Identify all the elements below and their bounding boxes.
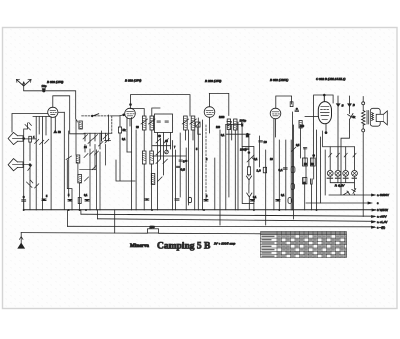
- switch S1a: [25, 123, 31, 131]
- frame aerial connector lower: [8, 159, 30, 171]
- arrow on left output vertical: [291, 147, 295, 151]
- svg-text:Camping 5 B: Camping 5 B: [157, 242, 211, 252]
- svg-text:P. 6,5V: P. 6,5V: [335, 184, 345, 188]
- switch S3: [341, 114, 353, 196]
- heater bus lower: [330, 176, 354, 189]
- volume pot body: [247, 167, 250, 175]
- svg-text:C 362 B (UBL1/UEL1): C 362 B (UBL1/UEL1): [316, 77, 346, 81]
- wires T1: [130, 108, 160, 210]
- AF section verticals: [260, 119, 294, 225]
- wire loop V3 anode: [209, 93, 229, 115]
- wire lamp column: [324, 150, 326, 195]
- node A antenna junction: [43, 90, 45, 92]
- IF transformer T2 primary: [184, 116, 188, 130]
- trimmer arrows left band1: [35, 139, 49, 144]
- svg-text:B 383 (UF3): B 383 (UF3): [47, 80, 63, 84]
- heater switch: [352, 189, 356, 196]
- node V2 anode dot: [130, 104, 132, 106]
- wire antenna to oscillator: [24, 91, 77, 122]
- mid verticals: [158, 118, 199, 210]
- wire loop V2 anode: [131, 95, 191, 116]
- ground: [18, 233, 24, 249]
- trimmer arrows left band2: [35, 184, 39, 188]
- svg-text:0,1: 0,1: [279, 168, 284, 172]
- terminal row 5: [98, 219, 388, 224]
- tube V3: [204, 107, 215, 133]
- IF transformer T1 primary: [142, 116, 146, 130]
- jack upper: [246, 176, 251, 184]
- svg-text:a +1,4V: a +1,4V: [377, 220, 387, 224]
- wire trimmer connectors: [127, 146, 186, 156]
- node flag1: [23, 138, 25, 140]
- terminal row 3 arrow: [372, 208, 388, 212]
- output section verticals: [293, 112, 321, 210]
- terminal row 4: [81, 214, 387, 219]
- switch S1c: [28, 165, 32, 171]
- svg-text:a 40/90V: a 40/90V: [377, 193, 389, 197]
- heater feed wires: [330, 147, 354, 171]
- tube V2: [125, 108, 136, 126]
- svg-text:1,0: 1,0: [257, 169, 262, 173]
- jack lower: [247, 193, 252, 210]
- svg-text:5k: 5k: [123, 128, 127, 132]
- wire grid feed V1: [53, 96, 84, 134]
- svg-text:250: 250: [300, 125, 305, 128]
- svg-text:B 382 (UBF1): B 382 (UBF1): [270, 78, 288, 82]
- svg-text:4k: 4k: [352, 115, 356, 119]
- table header row fill: [261, 232, 347, 235]
- oscillator internal verticals: [85, 133, 106, 149]
- output transformer primary coil: [362, 97, 369, 217]
- oscillator coil L5: [151, 174, 162, 185]
- heater lamp 4: [352, 170, 358, 176]
- bandfilter box: [155, 114, 173, 133]
- trimmer cluster mid: [156, 139, 168, 164]
- heater lamp 3: [343, 170, 349, 176]
- wires caps: [305, 184, 312, 210]
- svg-text:100p: 100p: [240, 148, 247, 152]
- junction dots bus A: [23, 209, 318, 211]
- coupling caps AF: [279, 166, 295, 172]
- terminal row 2: [306, 201, 379, 205]
- electrolytic caps lower: [303, 178, 313, 184]
- data table: [261, 232, 347, 258]
- svg-text:2V + 100/5 amp: 2V + 100/5 amp: [213, 242, 236, 246]
- node B: [348, 96, 355, 114]
- T1 tuning arrows: [141, 119, 155, 124]
- bus A ground rail: [24, 209, 376, 211]
- value labels scattered: [33, 116, 314, 199]
- T2 tuning arrows: [182, 119, 196, 124]
- electrolytic caps 50+50: [303, 158, 316, 166]
- capacitor 1,0 af: [257, 167, 267, 173]
- wire loop V5 grid: [314, 95, 334, 158]
- bus D ground return: [21, 233, 262, 234]
- svg-text:100: 100: [216, 126, 221, 129]
- heater lamp 2: [335, 170, 341, 176]
- resistor on V4 loop: [290, 102, 293, 107]
- svg-text:s −(B): s −(B): [377, 225, 385, 229]
- svg-text:10: 10: [264, 140, 268, 144]
- heater feed bus: [323, 131, 355, 147]
- capacitor 100pF anode: [240, 119, 247, 127]
- osc coil lower2: [78, 166, 96, 183]
- frame aerial connector upper: [8, 132, 24, 144]
- wires below oscillator: [76, 120, 106, 210]
- table cell fills: [278, 235, 347, 257]
- svg-text:1000: 1000: [219, 116, 225, 119]
- left frame wires: [12, 114, 48, 210]
- capacitor 10 top: [259, 140, 267, 144]
- terminal row 6: [67, 225, 385, 229]
- heater lamp 1: [327, 170, 333, 176]
- resistor 150: [148, 225, 159, 233]
- fuse symbols: [329, 153, 357, 157]
- output tube V5: [305, 95, 332, 134]
- component row above bus mid: [145, 197, 292, 203]
- switch at left of coil: [66, 156, 72, 160]
- capacitor 5: [179, 160, 187, 164]
- component row above bus left: [42, 198, 89, 204]
- bandfilter caps inside: [157, 121, 168, 122]
- capacitor at V4 anode: [295, 108, 299, 112]
- svg-text:3 W/KW: 3 W/KW: [377, 208, 388, 212]
- tube V1: [48, 107, 65, 209]
- trimmer circles: [165, 150, 169, 154]
- arrow mid: [105, 139, 109, 143]
- node flag2: [29, 164, 31, 166]
- svg-text:S: S: [342, 104, 344, 108]
- AVC dashed line: [205, 125, 207, 199]
- svg-text:B 383 (UF4): B 383 (UF4): [125, 79, 141, 83]
- padder trimmers: [83, 135, 108, 147]
- capacitor 100p agc: [240, 148, 249, 152]
- IF transformer T1 secondary: [150, 116, 154, 130]
- bus risers: [67, 210, 114, 233]
- wire loop V4 anode: [276, 96, 292, 108]
- terminal arrow 1: [372, 194, 376, 196]
- mid section resistor under V2: [118, 127, 126, 133]
- resistor R1: [29, 136, 32, 142]
- detector verticals: [203, 120, 254, 225]
- T1 coil lower pair: [142, 151, 153, 164]
- switch S1b: [27, 180, 33, 188]
- wires T2: [185, 130, 193, 140]
- mid verticals under V2: [105, 115, 137, 210]
- resistor AF: [299, 121, 302, 129]
- svg-text:B 283 (UF9): B 283 (UF9): [205, 79, 221, 83]
- caps 0,1 pair output: [303, 148, 306, 149]
- svg-text:150: 150: [150, 225, 155, 229]
- electrolytic small left: [291, 184, 294, 190]
- node S: [337, 96, 344, 170]
- main switch on line: [329, 191, 375, 195]
- tube V4: [270, 108, 281, 137]
- volume pot arrow: [247, 155, 254, 162]
- svg-text:10p: 10p: [42, 84, 47, 88]
- oscillator coil L3: [79, 121, 82, 129]
- node V5 top: [323, 95, 325, 102]
- capacitor left bottom: [22, 196, 26, 210]
- svg-text:B: B: [353, 103, 355, 107]
- wave band switch box (dashed): [82, 116, 112, 133]
- wire to V2 grid: [112, 115, 125, 116]
- svg-text:100p: 100p: [240, 119, 247, 123]
- antenna coupling capacitor C1: [42, 88, 45, 89]
- svg-text:0,5: 0,5: [181, 168, 186, 172]
- detector resistors R5 R6: [227, 119, 237, 130]
- antenna: [17, 80, 32, 91]
- capacitor 0,5: [177, 166, 186, 171]
- svg-text:Minerva: Minerva: [130, 243, 149, 249]
- osc coil lower: [76, 151, 98, 163]
- loudspeaker: [370, 108, 387, 126]
- switch S2: [92, 114, 99, 117]
- svg-text:a +90V: a +90V: [377, 215, 387, 219]
- IF transformer T2 secondary: [191, 116, 195, 130]
